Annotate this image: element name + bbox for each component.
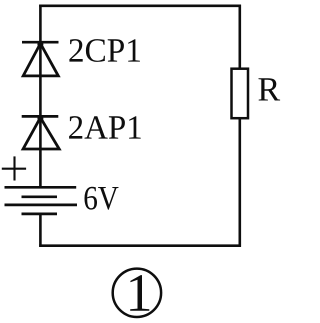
junction dot diode D1 apex [37,41,43,47]
diode D1 2CP1 cathode bar [22,41,59,44]
junction dot diode D2 apex [37,115,43,121]
diode D1 2CP1 triangle [23,44,58,76]
wire left lower [39,214,42,247]
wire left diode2 to battery [39,118,42,188]
label 2CP1 [69,39,139,62]
label 2AP1 [69,116,141,139]
battery plate short 2 [22,213,58,216]
wire bottom [39,244,241,247]
battery plus sign vertical [13,156,15,180]
resistor R body [232,69,249,119]
wire left between diodes [39,44,42,117]
diode D2 2AP1 triangle [23,118,59,149]
wire top [39,5,241,8]
label R [259,78,281,100]
figure number circle 1 [113,269,161,317]
battery plate short 1 [22,195,58,198]
diode D2 2AP1 cathode bar [22,115,59,118]
battery plate long 2 [5,204,78,207]
figure number digit 1 [130,275,149,311]
battery plus sign horizontal [2,168,26,170]
wire left upper [39,5,42,43]
wire right lower [239,119,242,247]
label 6V [85,187,119,210]
wire right upper [239,5,242,69]
battery plate long 1 [5,186,77,189]
